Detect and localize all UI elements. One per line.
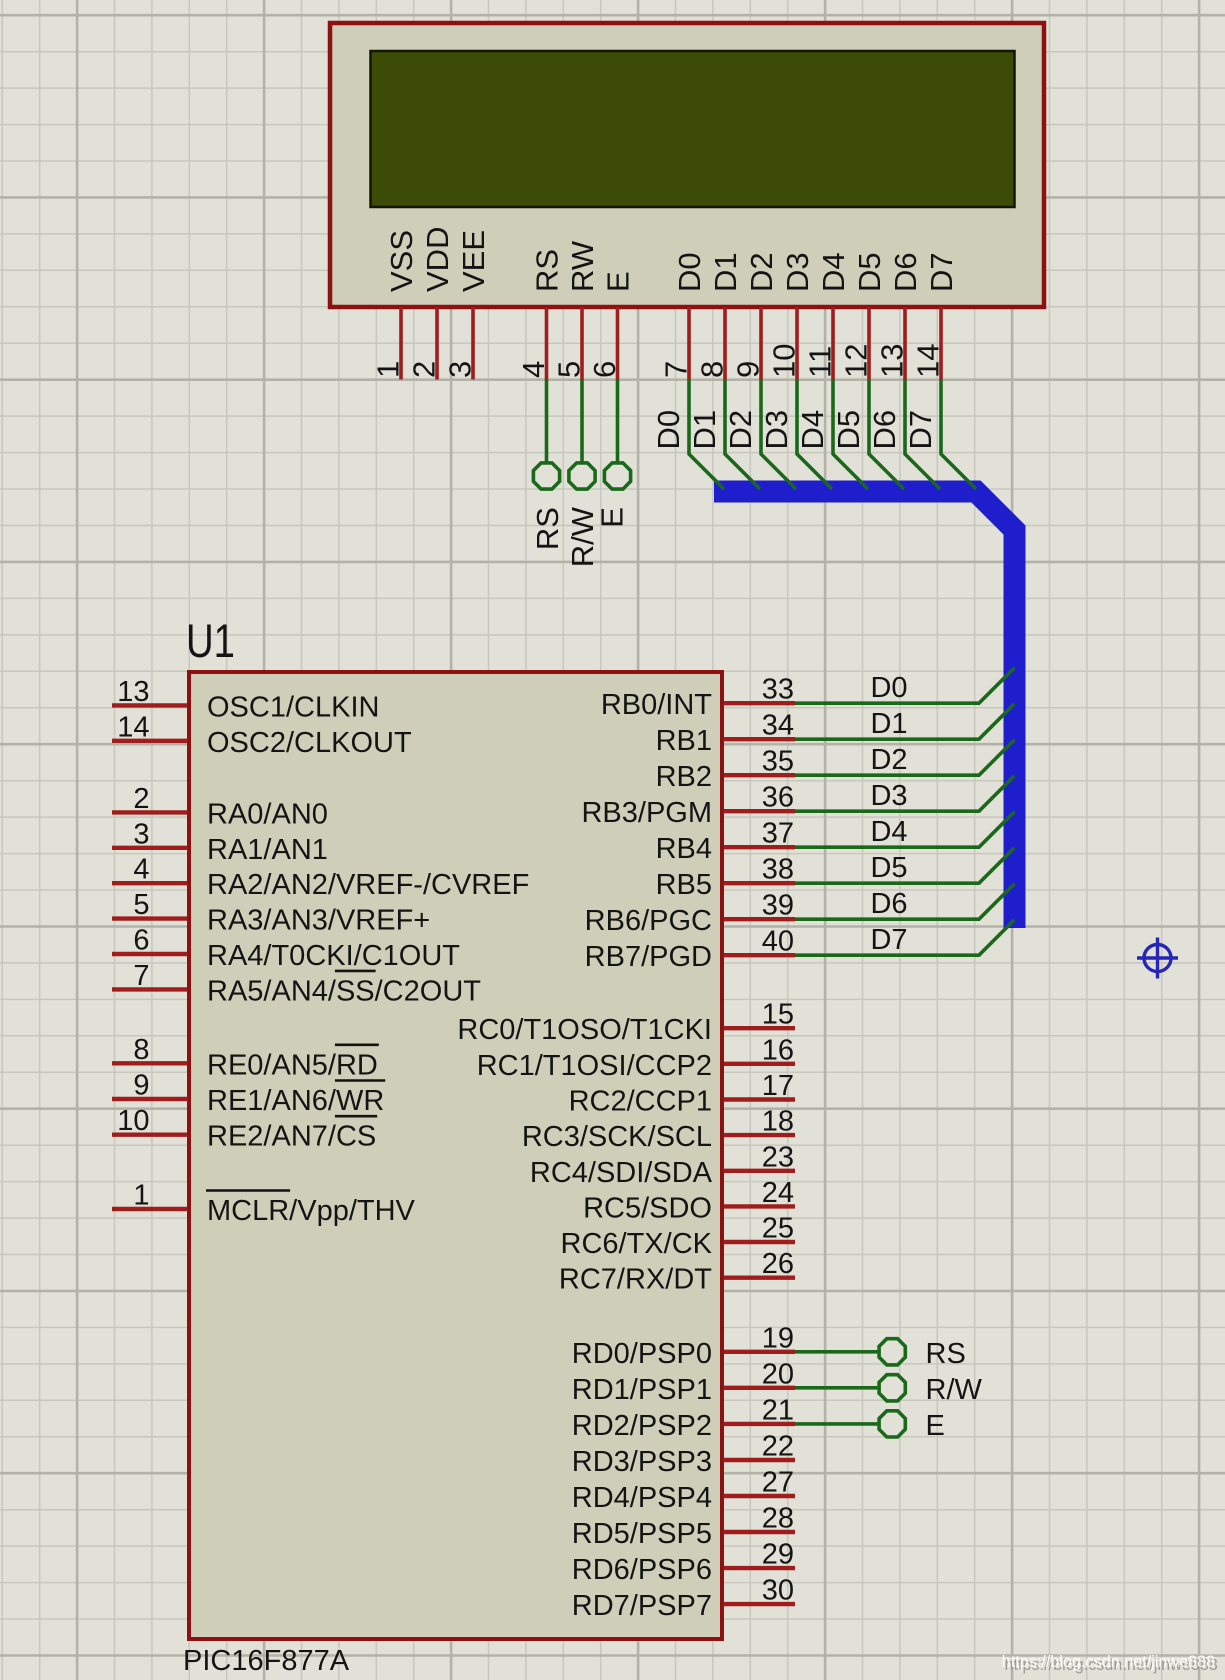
svg-text:D0: D0 [870, 672, 907, 704]
svg-text:RB7/PGD: RB7/PGD [585, 941, 712, 973]
svg-text:29: 29 [762, 1539, 794, 1571]
svg-text:8: 8 [695, 361, 730, 378]
svg-text:U1: U1 [186, 614, 235, 667]
svg-text:D5: D5 [831, 410, 866, 450]
svg-text:RD0/PSP0: RD0/PSP0 [572, 1338, 712, 1370]
svg-text:D7: D7 [903, 410, 938, 450]
svg-text:D3: D3 [870, 780, 907, 812]
svg-text:D4: D4 [795, 410, 830, 450]
svg-text:4: 4 [133, 854, 149, 886]
svg-text:D4: D4 [870, 816, 907, 848]
svg-text:E: E [595, 507, 630, 528]
svg-text:PIC16F877A: PIC16F877A [183, 1645, 350, 1677]
svg-text:MCLR/Vpp/THV: MCLR/Vpp/THV [207, 1195, 416, 1227]
svg-text:39: 39 [762, 890, 794, 922]
svg-text:D6: D6 [870, 888, 907, 920]
svg-text:D7: D7 [870, 924, 907, 956]
svg-text:RB2: RB2 [656, 761, 712, 793]
svg-text:RC4/SDI/SDA: RC4/SDI/SDA [530, 1157, 713, 1189]
svg-text:VSS: VSS [384, 230, 419, 292]
svg-text:33: 33 [762, 674, 794, 706]
svg-text:6: 6 [587, 361, 622, 378]
svg-text:RB5: RB5 [656, 869, 712, 901]
svg-text:37: 37 [762, 818, 794, 850]
svg-text:26: 26 [762, 1248, 794, 1280]
svg-text:RC0/T1OSO/T1CKI: RC0/T1OSO/T1CKI [457, 1014, 712, 1046]
svg-text:RD6/PSP6: RD6/PSP6 [572, 1554, 712, 1586]
svg-text:D2: D2 [870, 744, 907, 776]
svg-text:10: 10 [117, 1105, 149, 1137]
svg-text:RD7/PSP7: RD7/PSP7 [572, 1590, 712, 1622]
svg-text:38: 38 [762, 854, 794, 886]
svg-text:https://blog.csdn.net/jinwe888: https://blog.csdn.net/jinwe888 [1002, 1653, 1215, 1671]
svg-text:RC5/SDO: RC5/SDO [583, 1192, 712, 1224]
svg-text:RA0/AN0: RA0/AN0 [207, 798, 328, 830]
svg-text:E: E [926, 1410, 945, 1442]
svg-text:D1: D1 [708, 252, 743, 292]
svg-text:16: 16 [762, 1034, 794, 1066]
svg-text:VEE: VEE [456, 230, 491, 292]
svg-text:23: 23 [762, 1141, 794, 1173]
svg-text:RE1/AN6/WR: RE1/AN6/WR [207, 1085, 384, 1117]
svg-text:OSC1/CLKIN: OSC1/CLKIN [207, 691, 379, 723]
svg-text:RE2/AN7/CS: RE2/AN7/CS [207, 1121, 376, 1153]
svg-text:19: 19 [762, 1322, 794, 1354]
svg-text:28: 28 [762, 1503, 794, 1535]
svg-text:D1: D1 [870, 708, 907, 740]
svg-text:30: 30 [762, 1575, 794, 1607]
svg-text:3: 3 [443, 361, 478, 378]
svg-text:25: 25 [762, 1213, 794, 1245]
svg-text:13: 13 [117, 676, 149, 708]
svg-text:RC6/TX/CK: RC6/TX/CK [561, 1228, 713, 1260]
svg-text:7: 7 [659, 361, 694, 378]
svg-text:R/W: R/W [926, 1374, 983, 1406]
svg-text:RE0/AN5/RD: RE0/AN5/RD [207, 1049, 378, 1081]
svg-text:2: 2 [407, 361, 442, 378]
svg-text:5: 5 [552, 361, 587, 378]
svg-text:1: 1 [133, 1180, 149, 1212]
svg-text:4: 4 [516, 361, 551, 378]
svg-text:14: 14 [117, 711, 149, 743]
svg-text:RB6/PGC: RB6/PGC [585, 905, 712, 937]
svg-text:6: 6 [133, 925, 149, 957]
svg-text:8: 8 [133, 1034, 149, 1066]
svg-text:RC3/SCK/SCL: RC3/SCK/SCL [522, 1121, 712, 1153]
svg-text:21: 21 [762, 1394, 794, 1426]
svg-text:13: 13 [875, 344, 910, 378]
svg-text:RD2/PSP2: RD2/PSP2 [572, 1410, 712, 1442]
svg-text:22: 22 [762, 1431, 794, 1463]
svg-text:27: 27 [762, 1467, 794, 1499]
svg-text:36: 36 [762, 782, 794, 814]
svg-text:D3: D3 [780, 252, 815, 292]
svg-text:3: 3 [133, 818, 149, 850]
svg-text:24: 24 [762, 1177, 794, 1209]
svg-text:10: 10 [767, 344, 802, 378]
svg-text:D2: D2 [723, 410, 758, 450]
svg-text:18: 18 [762, 1106, 794, 1138]
svg-text:D2: D2 [744, 252, 779, 292]
svg-text:RD1/PSP1: RD1/PSP1 [572, 1374, 712, 1406]
svg-text:2: 2 [133, 783, 149, 815]
svg-text:D6: D6 [867, 410, 902, 450]
svg-text:RA4/T0CKI/C1OUT: RA4/T0CKI/C1OUT [207, 940, 460, 972]
svg-text:35: 35 [762, 746, 794, 778]
svg-text:D1: D1 [687, 410, 722, 450]
svg-text:12: 12 [839, 344, 874, 378]
svg-text:9: 9 [731, 361, 766, 378]
svg-text:11: 11 [803, 346, 838, 378]
svg-text:RC7/RX/DT: RC7/RX/DT [559, 1264, 712, 1296]
svg-text:14: 14 [911, 344, 946, 378]
svg-text:D0: D0 [651, 410, 686, 450]
svg-text:RC1/T1OSI/CCP2: RC1/T1OSI/CCP2 [477, 1050, 712, 1082]
svg-text:RB3/PGM: RB3/PGM [581, 797, 712, 829]
svg-text:RB0/INT: RB0/INT [601, 689, 712, 721]
svg-text:RS: RS [530, 507, 565, 550]
svg-text:D5: D5 [852, 252, 887, 292]
svg-text:RC2/CCP1: RC2/CCP1 [569, 1086, 712, 1118]
svg-text:RB4: RB4 [656, 833, 712, 865]
svg-text:OSC2/CLKOUT: OSC2/CLKOUT [207, 727, 412, 759]
svg-text:E: E [601, 271, 636, 292]
svg-text:RB1: RB1 [656, 725, 712, 757]
svg-text:RA2/AN2/VREF-/CVREF: RA2/AN2/VREF-/CVREF [207, 869, 529, 901]
svg-text:RS: RS [530, 249, 565, 292]
svg-text:1: 1 [371, 361, 406, 378]
svg-text:RA5/AN4/SS/C2OUT: RA5/AN4/SS/C2OUT [207, 975, 481, 1007]
svg-text:RW: RW [565, 240, 600, 292]
svg-text:7: 7 [133, 960, 149, 992]
svg-text:34: 34 [762, 710, 794, 742]
svg-text:40: 40 [762, 926, 794, 958]
svg-text:RS: RS [926, 1338, 966, 1370]
svg-text:9: 9 [133, 1070, 149, 1102]
svg-text:5: 5 [133, 889, 149, 921]
svg-text:RA3/AN3/VREF+: RA3/AN3/VREF+ [207, 905, 430, 937]
svg-text:D3: D3 [759, 410, 794, 450]
svg-text:D6: D6 [888, 252, 923, 292]
svg-text:20: 20 [762, 1358, 794, 1390]
svg-text:VDD: VDD [420, 227, 455, 292]
svg-text:RD5/PSP5: RD5/PSP5 [572, 1518, 712, 1550]
svg-text:RD3/PSP3: RD3/PSP3 [572, 1446, 712, 1478]
svg-text:17: 17 [762, 1070, 794, 1102]
svg-text:D0: D0 [672, 252, 707, 292]
svg-text:D7: D7 [924, 252, 959, 292]
svg-text:RD4/PSP4: RD4/PSP4 [572, 1482, 712, 1514]
svg-text:RA1/AN1: RA1/AN1 [207, 834, 328, 866]
svg-text:D5: D5 [870, 852, 907, 884]
svg-text:15: 15 [762, 999, 794, 1031]
svg-text:D4: D4 [816, 252, 851, 292]
